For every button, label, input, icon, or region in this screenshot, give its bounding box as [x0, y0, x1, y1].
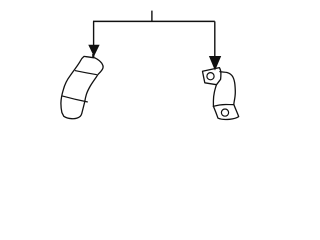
- leader line: right drop: [214, 21, 216, 57]
- bracket top tab: [203, 68, 221, 85]
- leader line: center tick: [151, 11, 153, 22]
- arrowhead left blunt tip stub: [92, 54, 94, 57]
- bracket foot hole: [221, 109, 228, 116]
- arrowhead left: [89, 45, 99, 55]
- bracket foot top edge: [213, 105, 234, 107]
- bracket top hole: [207, 73, 214, 80]
- hose crease line 2: [62, 96, 88, 102]
- hose part outline: [61, 56, 103, 118]
- leader line: horizontal bar: [93, 20, 215, 22]
- arrowhead right: [210, 56, 221, 69]
- hose crease line 1: [75, 71, 97, 75]
- leader line: left drop: [93, 21, 95, 46]
- bracket right and bottom outline: [213, 72, 238, 120]
- bracket body left edge: [213, 85, 216, 107]
